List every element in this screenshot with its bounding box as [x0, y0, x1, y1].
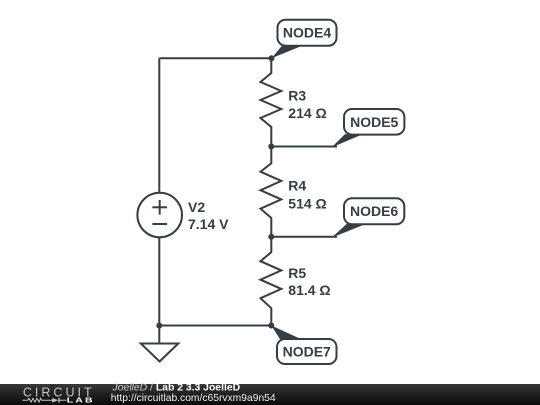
callout pointer NODE4: [272, 46, 302, 58]
logo diode: [52, 398, 58, 403]
resistor R3: [261, 58, 282, 146]
wire ground stub: [158, 326, 160, 344]
node label box NODE5: [344, 109, 404, 135]
svg-text:http://circuitlab.com/c65rvxm9: http://circuitlab.com/c65rvxm9a9n54: [111, 393, 276, 404]
callout pointer NODE7: [271, 326, 301, 340]
V2 minus sign: [152, 223, 167, 225]
node label box NODE4: [278, 20, 337, 46]
wire left rail lower: [158, 238, 160, 326]
node label box NODE7: [277, 339, 337, 364]
node B junction dot R3/R4: [268, 144, 274, 150]
resistor R5: [261, 237, 282, 326]
footer bar: [0, 384, 540, 405]
node A junction dot top: [269, 55, 275, 61]
node D junction dot bottom right: [268, 323, 274, 329]
logo resistor squiggle: [22, 398, 52, 402]
svg-text:LAB: LAB: [67, 396, 95, 404]
wire node5 tap: [271, 146, 337, 148]
callout pointer NODE6: [332, 224, 367, 238]
wire left rail upper: [158, 58, 160, 192]
V2 plus sign: [152, 206, 167, 208]
node label box NODE6: [344, 198, 404, 224]
ground: [141, 344, 179, 362]
wire bottom horizontal: [159, 325, 271, 327]
node C junction dot R4/R5: [268, 234, 274, 240]
voltage source V2 circle: [137, 193, 182, 238]
wire node6 tap: [271, 236, 337, 238]
node E junction dot bottom left: [156, 323, 162, 329]
resistor R4: [261, 147, 282, 237]
wire top horizontal: [159, 57, 271, 59]
callout pointer NODE5: [332, 134, 363, 147]
